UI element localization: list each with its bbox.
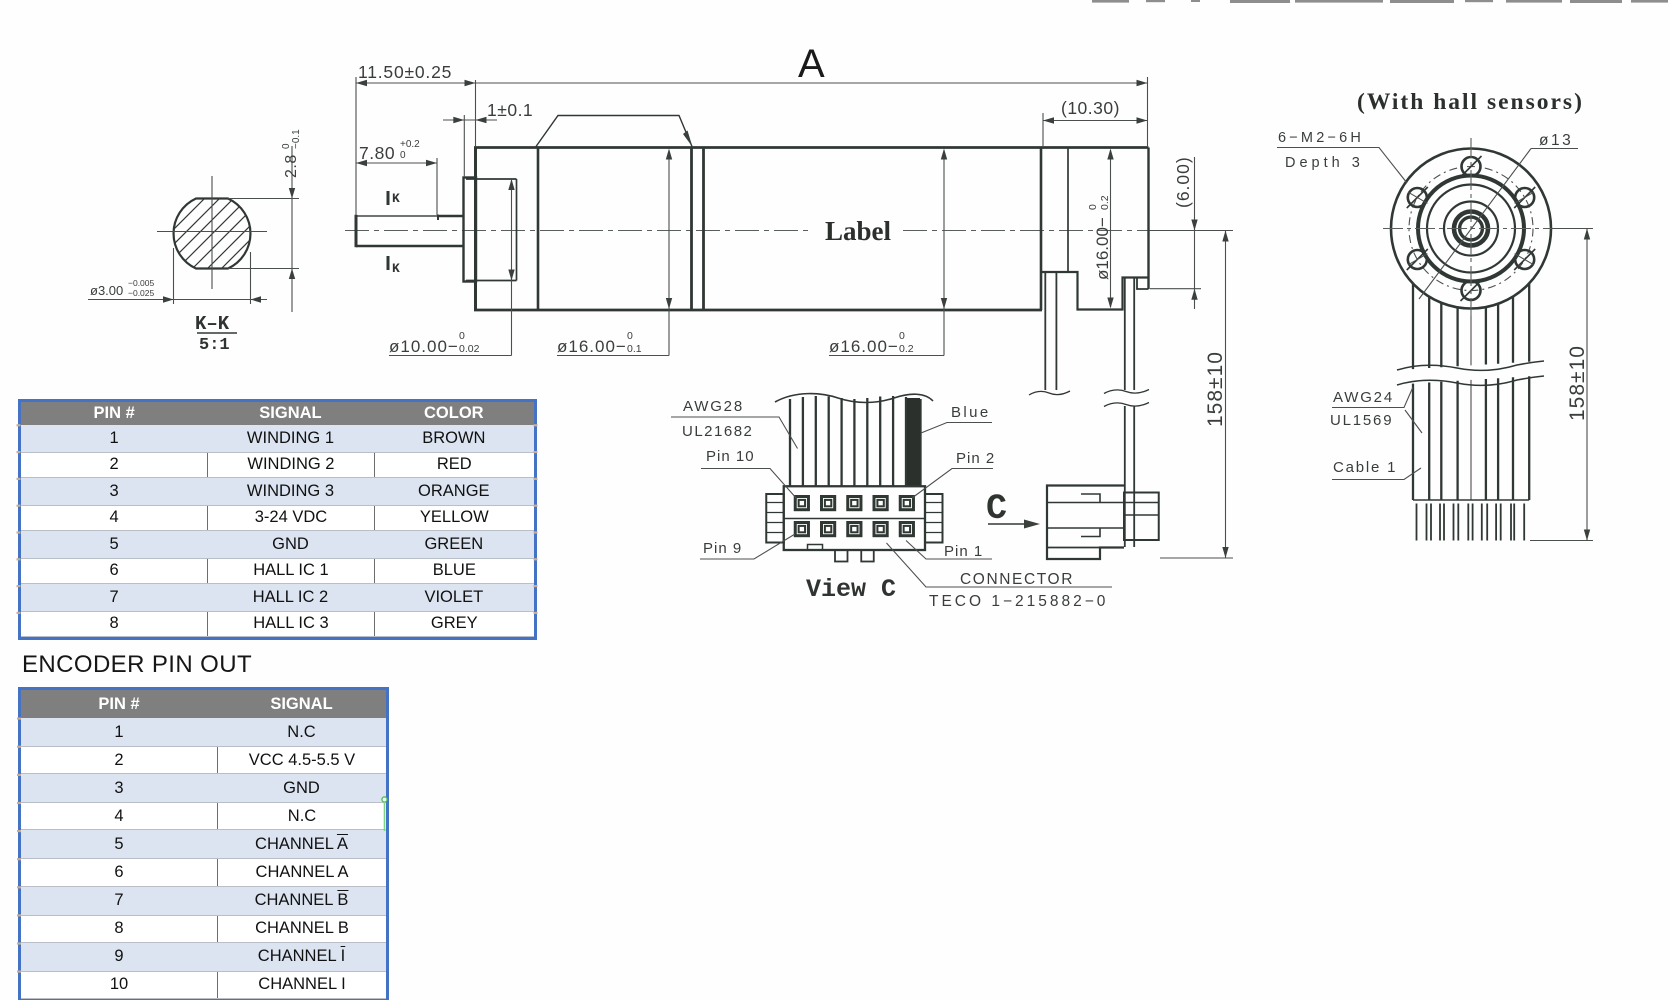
svg-text:CONNECTOR: CONNECTOR (960, 571, 1074, 588)
boss ø10 (466, 178, 517, 180)
(6.00) (1194, 157, 1196, 309)
center ring/shaft (1454, 212, 1488, 246)
dimension ø3.00 bottom (173, 248, 175, 304)
shaft (356, 215, 438, 217)
svg-text:0: 0 (1087, 204, 1099, 210)
pins: 2 rows x 5 (795, 497, 913, 536)
gearbox/section boundary (537, 148, 540, 311)
svg-text:ø10.00−: ø10.00− (389, 337, 459, 356)
svg-text:2.8: 2.8 (283, 154, 300, 178)
bolt holes 6x (1407, 156, 1535, 301)
ø16.00 -0.2 (motor can) (943, 152, 945, 356)
can rings (690, 148, 693, 311)
cable bundle (1413, 284, 1529, 500)
ø16.00 -0.2 rotated (encoder) (1110, 150, 1112, 307)
svg-text:158±10: 158±10 (1204, 351, 1227, 427)
svg-text:AWG28: AWG28 (683, 398, 744, 415)
svg-text:TECO 1−215882−0: TECO 1−215882−0 (929, 593, 1108, 610)
PIN/SIGNAL/COLOR table (18, 399, 537, 640)
svg-text:(6.00): (6.00) (1173, 156, 1193, 208)
side connector (section C) (1047, 486, 1124, 560)
svg-text:−0.1: −0.1 (291, 129, 302, 149)
svg-text:11.50±0.25: 11.50±0.25 (358, 62, 452, 82)
bundle break squiggles (1397, 361, 1544, 370)
gearbox front face (474, 148, 477, 311)
body top and bottom (474, 146, 1149, 149)
(10.30) (1043, 120, 1148, 122)
dimension 2.8 -0.1 vertical (291, 146, 293, 312)
svg-text:Pin 10: Pin 10 (706, 448, 755, 465)
svg-text:K–K: K–K (195, 313, 230, 335)
flat extension lines to dimension 2.8 (228, 198, 299, 200)
svg-text:ø3.00: ø3.00 (90, 283, 123, 298)
encoder right face (1147, 148, 1149, 290)
ø16.00 -0.1 (gearbox) (668, 152, 670, 356)
svg-text:0.02: 0.02 (459, 343, 480, 355)
svg-text:C: C (986, 489, 1007, 529)
svg-text:7.80: 7.80 (359, 143, 395, 163)
svg-text:Cable 1: Cable 1 (1333, 459, 1397, 476)
svg-text:View C: View C (806, 575, 896, 604)
svg-text:0.1: 0.1 (627, 343, 642, 355)
svg-text:−0.025: −0.025 (128, 288, 155, 298)
svg-text:+0.2: +0.2 (400, 139, 420, 150)
1±0.1 (443, 119, 497, 121)
front plate washer (464, 178, 477, 282)
svg-text:Label: Label (825, 216, 892, 246)
ribbon wavy top edge (775, 394, 933, 403)
svg-text:0: 0 (899, 330, 905, 342)
ø13 diagonal + label (1419, 149, 1531, 300)
ø10.00 -0.02 (boss) (511, 180, 513, 356)
bolt circle dash-dot (1409, 167, 1533, 291)
svg-text:0.2: 0.2 (1099, 195, 1111, 210)
table border tick artifacts (17, 424, 538, 973)
svg-text:ø16.00−: ø16.00− (1093, 217, 1112, 280)
svg-text:ø16.00−: ø16.00− (829, 337, 899, 356)
left leg break (1029, 391, 1070, 395)
right leg wires (cable down to connector) (1124, 278, 1126, 547)
svg-text:158±10: 158±10 (1566, 345, 1589, 421)
cut-off text fragments along top edge (1092, 0, 1668, 3)
right leg double break (1104, 390, 1149, 394)
svg-text:0: 0 (627, 330, 633, 342)
svg-text:K: K (392, 191, 400, 206)
green selection artifact (382, 797, 387, 802)
blue wire (dark) (907, 398, 920, 486)
left leg wires (1044, 273, 1046, 390)
7.80 +0.2/0 (356, 162, 437, 164)
shaft cross-section outline (174, 199, 251, 269)
svg-text:UL1569: UL1569 (1330, 412, 1393, 429)
motor right face (1040, 148, 1043, 311)
svg-text:5:1: 5:1 (199, 336, 230, 355)
hatching (74, 150, 384, 300)
svg-text:Pin 9: Pin 9 (703, 540, 742, 557)
svg-text:(10.30): (10.30) (1061, 98, 1120, 118)
raised ring thick (1418, 176, 1524, 282)
svg-text:Pin 1: Pin 1 (944, 543, 983, 560)
encoder bottom profile (1041, 272, 1149, 310)
centerlines (1383, 228, 1561, 230)
svg-text:ø13: ø13 (1539, 132, 1573, 149)
svg-text:−0.005: −0.005 (128, 278, 155, 288)
svg-text:(With hall sensors): (With hall sensors) (1357, 89, 1584, 115)
wire tails (1417, 504, 1525, 541)
encoder internal line (1067, 148, 1069, 272)
svg-text:0: 0 (400, 150, 406, 161)
svg-text:AWG24: AWG24 (1333, 389, 1394, 406)
svg-text:1±0.1: 1±0.1 (487, 100, 533, 120)
svg-text:UL21682: UL21682 (682, 423, 753, 440)
svg-text:6−M2−6H: 6−M2−6H (1278, 130, 1364, 146)
svg-text:0: 0 (459, 330, 465, 342)
left ear (766, 494, 784, 543)
trapezoid hump (536, 116, 692, 147)
svg-text:K: K (392, 261, 400, 276)
right ear (925, 494, 943, 543)
svg-text:Pin 2: Pin 2 (956, 450, 995, 467)
bundle bottom edge (1413, 499, 1529, 501)
158±10 right dimension (1551, 228, 1593, 230)
K section markers (387, 191, 390, 205)
bottom tabs (835, 550, 848, 562)
svg-text:ø16.00−: ø16.00− (557, 337, 627, 356)
outer flange (1391, 149, 1551, 309)
centerline (345, 230, 812, 232)
centerlines (211, 176, 213, 289)
radial ticks (1408, 192, 1533, 264)
ribbon cable wires (790, 396, 921, 486)
svg-text:Blue: Blue (951, 404, 991, 421)
svg-text:0.2: 0.2 (899, 343, 914, 355)
ENCODER PIN OUT table (18, 687, 389, 1000)
svg-text:A: A (798, 42, 825, 86)
top shared dimension line (356, 82, 1148, 84)
centerline extension right + 158±10 (1150, 230, 1233, 232)
connector body (784, 486, 925, 550)
svg-text:Depth 3: Depth 3 (1285, 155, 1364, 171)
